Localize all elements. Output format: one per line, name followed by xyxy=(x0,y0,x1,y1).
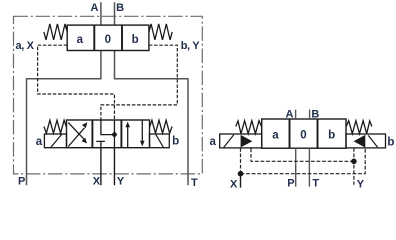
spring above right actuator V2 xyxy=(150,120,172,133)
V3 right actuator box xyxy=(346,134,386,148)
V2 right pilot actuator (slanted box) xyxy=(150,134,170,148)
svg-text:A: A xyxy=(90,2,98,14)
svg-text:a: a xyxy=(210,136,217,148)
V2 down arrow (position b) xyxy=(141,120,143,141)
P supply line (gray elbow to port P) xyxy=(27,51,101,186)
pilot X dashed run to right actuator xyxy=(241,148,366,174)
V3 right pilot triangle xyxy=(354,136,365,147)
svg-text:X: X xyxy=(230,178,238,190)
main valve V1 divider a/0 xyxy=(93,25,95,50)
port X stub (V3) xyxy=(240,174,242,188)
V3 divider a/0 xyxy=(289,119,291,148)
svg-text:b: b xyxy=(328,130,335,142)
port P line (V3) xyxy=(295,148,297,186)
svg-text:a: a xyxy=(77,34,84,46)
spring above V3 left actuator xyxy=(236,121,262,134)
svg-text:0: 0 xyxy=(300,130,306,142)
svg-text:b: b xyxy=(387,137,394,149)
svg-text:b, Y: b, Y xyxy=(181,40,201,52)
V3 divider 0/b xyxy=(317,119,319,148)
main valve V1 body (positions a,0,b) xyxy=(67,25,149,50)
pilot Y dashed drop (right actuator) xyxy=(353,148,355,185)
V2 crossed arrow (position a, up-right) xyxy=(68,128,84,147)
svg-text:Y: Y xyxy=(357,179,365,191)
port B line (V3) xyxy=(309,110,311,119)
junction dot on Y duct xyxy=(112,132,117,137)
pilot valve V2 divider a/0 xyxy=(91,120,93,148)
svg-text:B: B xyxy=(311,109,319,121)
pilot line a,X (dashed) to V1 left end xyxy=(38,45,115,120)
port Y line xyxy=(113,148,115,186)
V2 centre L-duct to drain xyxy=(101,120,115,135)
svg-text:P: P xyxy=(287,178,294,190)
junction dot X xyxy=(238,171,244,177)
pilot valve V2 divider 0/b xyxy=(120,120,122,148)
port A line xyxy=(100,2,102,25)
svg-text:P: P xyxy=(18,175,25,187)
V2 blocked port X (stub+bar) xyxy=(96,141,105,147)
V3 left pilot triangle xyxy=(241,136,252,147)
port B line xyxy=(114,2,116,25)
port T line (V3) xyxy=(308,148,310,186)
svg-text:b: b xyxy=(132,34,139,46)
port A line (V3) xyxy=(295,110,297,119)
T return line (gray elbow to port T) xyxy=(115,51,189,186)
svg-text:T: T xyxy=(312,178,319,190)
svg-text:a: a xyxy=(272,130,279,142)
V3 left actuator slash xyxy=(224,135,234,148)
svg-text:X: X xyxy=(93,175,101,187)
svg-text:b: b xyxy=(172,136,179,148)
svg-text:Y: Y xyxy=(117,175,125,187)
V2 crossed arrow (position a, down-right) xyxy=(68,123,84,140)
svg-text:T: T xyxy=(191,177,198,189)
enclosure border (dash-dot) xyxy=(14,16,203,174)
pilot Y dashed run to left actuator xyxy=(251,148,354,161)
V3 left actuator box xyxy=(220,134,262,148)
V3 right actuator slash xyxy=(368,135,377,147)
port X line xyxy=(100,148,102,186)
V2 up arrow (position b) xyxy=(127,127,129,148)
svg-text:A: A xyxy=(285,109,293,121)
svg-text:a, X: a, X xyxy=(16,40,35,52)
valve V3 body xyxy=(262,119,346,148)
svg-text:a: a xyxy=(36,136,43,148)
pilot valve V2 body xyxy=(67,120,150,148)
pilot X dashed drop (left actuator) xyxy=(240,148,242,174)
main valve V1 divider 0/b xyxy=(121,25,123,50)
svg-text:0: 0 xyxy=(105,34,111,46)
pilot line b,Y (dashed) to V1 right end xyxy=(101,45,177,120)
spring right of V1 xyxy=(149,24,172,40)
spring left of V1 xyxy=(44,24,67,40)
svg-text:B: B xyxy=(116,2,124,14)
spring above left actuator V2 xyxy=(44,120,66,133)
junction dot Y xyxy=(351,159,357,165)
V2 left pilot actuator (slanted box) xyxy=(44,134,66,148)
spring above V3 right actuator xyxy=(346,121,372,134)
V2 centre through-duct (Y) xyxy=(113,120,115,148)
